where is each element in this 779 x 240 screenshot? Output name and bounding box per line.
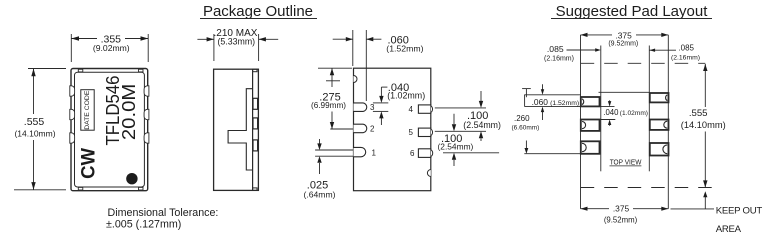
svg-text:(2.16mm): (2.16mm)	[671, 54, 700, 61]
side view pad 3	[253, 140, 258, 151]
bottom view left edge arc notch	[354, 76, 358, 83]
svg-text:(1.02mm): (1.02mm)	[387, 90, 425, 100]
front view corner notch top-left	[78, 69, 83, 72]
svg-text:(2.54mm): (2.54mm)	[438, 142, 474, 152]
dimension .355 (9.02mm)	[71, 34, 148, 62]
svg-text:20.0M: 20.0M	[118, 84, 139, 140]
side view bottom lid tab	[253, 188, 257, 191]
dimension .085 (2.16mm) left	[544, 44, 601, 63]
svg-text:.375: .375	[615, 30, 632, 40]
svg-text:KEEP OUT: KEEP OUT	[716, 205, 763, 216]
svg-text:(1.52mm): (1.52mm)	[386, 44, 423, 54]
bottom view package body	[354, 68, 431, 191]
dimension .040 (1.02mm) pad layout	[598, 100, 648, 126]
pin 3	[354, 103, 376, 112]
front view right castellation 1	[144, 86, 149, 96]
dimension .555 (14.10mm) pad layout	[681, 64, 726, 188]
side view pad 2	[253, 118, 258, 129]
front view left castellation 1	[70, 86, 75, 96]
svg-text:(1.02mm): (1.02mm)	[620, 110, 648, 117]
svg-text:4: 4	[409, 105, 414, 114]
svg-text:.260: .260	[514, 114, 530, 123]
pad 1 left	[581, 97, 600, 106]
svg-text:(9.52mm): (9.52mm)	[608, 41, 638, 48]
pad 6 right	[650, 143, 669, 156]
svg-text:(5.33mm): (5.33mm)	[217, 36, 255, 46]
dimension .060 (1.52mm) pad layout	[524, 84, 649, 120]
pad 3 left	[581, 141, 600, 154]
svg-text:(6.99mm): (6.99mm)	[311, 101, 346, 110]
keep out area label and leader	[671, 191, 763, 235]
svg-text:5: 5	[409, 128, 414, 137]
dimension .100 (2.54mm) pin pitch 5-6	[438, 114, 500, 166]
dimension .555 (14.10mm)	[14, 69, 66, 190]
front view right castellation 3	[144, 133, 149, 143]
front view corner notch bottom-right	[139, 187, 144, 190]
dimension .040 (1.02mm) pin width	[373, 82, 425, 125]
label TOP VIEW	[610, 157, 643, 166]
pin 2	[354, 124, 376, 133]
svg-text:Dimensional Tolerance:: Dimensional Tolerance:	[108, 207, 219, 219]
pad 5 right	[650, 120, 669, 130]
svg-text:(.64mm): (.64mm)	[304, 190, 336, 200]
front view corner notch bottom-left	[78, 187, 83, 190]
svg-text:(14.10mm): (14.10mm)	[681, 120, 726, 130]
pad layout outer right line	[667, 35, 669, 209]
dimension .260 (6.60mm)	[512, 89, 581, 154]
dimension .025 (.64mm)	[304, 139, 354, 200]
dimension .210 MAX (5.33mm)	[197, 28, 278, 61]
svg-text:(9.52mm): (9.52mm)	[604, 216, 638, 225]
tolerance note	[106, 207, 218, 231]
svg-text:DATE CODE: DATE CODE	[84, 90, 91, 130]
svg-text:.555: .555	[24, 116, 45, 128]
pin 5	[409, 128, 433, 137]
side view internal crystal shelf	[228, 89, 253, 170]
side view top lid tab	[253, 69, 257, 72]
date code box	[81, 90, 94, 131]
bottom view right edge arc notch	[427, 170, 430, 177]
svg-text:(2.54mm): (2.54mm)	[463, 120, 501, 130]
side view pad 1	[253, 98, 258, 109]
keep out area dashed top	[581, 62, 706, 64]
svg-text:CW: CW	[77, 147, 99, 179]
pad layout outer left line	[580, 35, 582, 209]
svg-text:6: 6	[410, 149, 415, 158]
svg-text:.060: .060	[532, 97, 549, 107]
svg-text:.040: .040	[603, 108, 619, 117]
dimension .060 (1.52mm) top	[333, 30, 424, 101]
svg-text:Suggested Pad Layout: Suggested Pad Layout	[556, 3, 709, 20]
svg-text:.085: .085	[678, 44, 694, 53]
pad 4 right	[650, 93, 669, 102]
svg-text:(2.16mm): (2.16mm)	[544, 56, 574, 63]
dimension .375 (9.52mm) bottom	[581, 204, 669, 225]
dimension .100 (2.54mm) pin pitch 4-5	[435, 91, 501, 141]
front view package body	[71, 69, 148, 191]
svg-text:(6.60mm): (6.60mm)	[512, 124, 540, 131]
svg-text:(14.10mm): (14.10mm)	[14, 129, 55, 139]
dimension .275 (6.99mm)	[311, 68, 354, 129]
svg-text:TOP VIEW: TOP VIEW	[610, 157, 642, 166]
pad 2 left	[581, 120, 600, 131]
side view package body	[214, 69, 259, 190]
svg-text:1: 1	[372, 148, 377, 157]
title Suggested Pad Layout	[551, 3, 712, 20]
svg-text:3: 3	[370, 103, 375, 112]
dimension .085 (2.16mm) right	[650, 44, 701, 62]
svg-text:.555: .555	[689, 108, 708, 119]
pad layout body left line	[600, 46, 602, 172]
pin 6	[410, 149, 433, 158]
svg-text:AREA: AREA	[716, 224, 742, 235]
title Package Outline	[200, 3, 317, 20]
svg-text:±.005 (.127mm): ±.005 (.127mm)	[106, 219, 181, 231]
front view corner notch top-right	[139, 69, 144, 72]
front view right castellation 2	[144, 109, 149, 119]
front view left castellation 2	[70, 109, 75, 119]
svg-text:Package Outline: Package Outline	[203, 3, 313, 20]
svg-text:(1.52mm): (1.52mm)	[550, 100, 579, 107]
pin 1	[354, 147, 377, 157]
pad layout body right line	[648, 46, 650, 172]
pin 1 dot marker	[126, 173, 137, 184]
svg-text:.085: .085	[547, 44, 564, 54]
svg-text:2: 2	[370, 125, 375, 134]
dimension .375 (9.52mm) top	[581, 30, 669, 47]
front view left castellation 3	[70, 133, 75, 143]
keep out area dashed bottom	[581, 187, 713, 189]
svg-text:(9.02mm): (9.02mm)	[93, 43, 130, 53]
pin 4	[409, 105, 433, 114]
svg-text:.375: .375	[613, 204, 630, 214]
